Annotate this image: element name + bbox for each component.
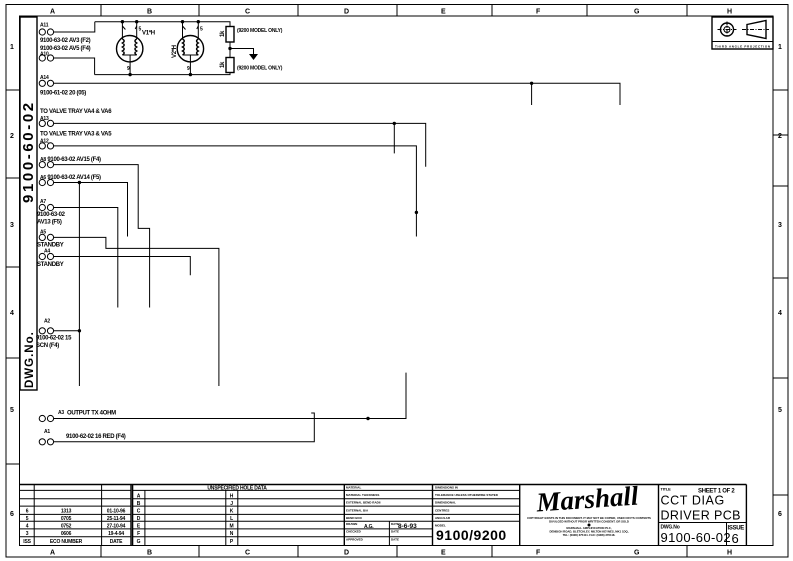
svg-text:DATE: DATE xyxy=(391,538,399,542)
svg-text:A: A xyxy=(137,493,141,499)
svg-text:C: C xyxy=(137,509,141,515)
svg-text:DATE: DATE xyxy=(110,539,123,545)
ECN issue table xyxy=(20,485,132,546)
svg-text:J: J xyxy=(230,501,233,507)
connector pad A2 xyxy=(36,319,72,350)
svg-text:3: 3 xyxy=(10,222,14,229)
svg-text:D: D xyxy=(344,550,349,557)
connector pad A5 xyxy=(37,230,64,249)
svg-text:M: M xyxy=(230,523,234,529)
svg-text:MATERIAL: MATERIAL xyxy=(346,486,361,490)
svg-text:A3: A3 xyxy=(58,410,64,416)
wire A3 output bus segment A xyxy=(54,373,406,419)
title block strip xyxy=(20,485,747,546)
dimensions block xyxy=(433,486,520,543)
svg-text:TO VALVE TRAY VA4 & VA6: TO VALVE TRAY VA4 & VA6 xyxy=(40,109,112,115)
svg-text:6: 6 xyxy=(778,511,782,518)
svg-text:V2*H: V2*H xyxy=(172,45,178,58)
svg-text:TITLE: TITLE xyxy=(661,487,672,492)
svg-text:F: F xyxy=(536,9,541,16)
svg-text:8-6-93: 8-6-93 xyxy=(398,523,417,530)
junction dot output bus at R11 xyxy=(366,417,369,420)
svg-text:B: B xyxy=(137,501,141,507)
wire A5 to LED2 xyxy=(54,237,219,386)
svg-text:D: D xyxy=(344,9,349,16)
junction dots heater bottom bus xyxy=(128,73,131,76)
svg-text:9100-62-02 15: 9100-62-02 15 xyxy=(36,336,72,342)
svg-text:6: 6 xyxy=(26,509,29,515)
row numbers left xyxy=(10,44,14,518)
svg-text:4: 4 xyxy=(778,310,782,317)
svg-text:6: 6 xyxy=(732,531,739,546)
junction dot A14 rail at R38 xyxy=(530,82,533,85)
svg-text:25-11-94: 25-11-94 xyxy=(107,516,126,522)
svg-text:H: H xyxy=(727,550,732,557)
wire A12 rail xyxy=(54,146,417,237)
svg-text:E: E xyxy=(441,9,446,16)
connector pad A14 xyxy=(39,75,86,97)
svg-text:1313: 1313 xyxy=(61,509,72,515)
svg-text:L: L xyxy=(230,516,233,522)
svg-text:EXTERNAL BEND RADII: EXTERNAL BEND RADII xyxy=(346,501,381,505)
svg-text:6: 6 xyxy=(10,511,14,518)
svg-text:A11: A11 xyxy=(40,23,49,29)
svg-text:TOLERANCE UNLESS OTHERWISE STA: TOLERANCE UNLESS OTHERWISE STATED xyxy=(435,493,499,497)
connector pad A11 xyxy=(39,23,53,36)
svg-text:CHECKED: CHECKED xyxy=(346,530,362,534)
DWG number box left xyxy=(20,17,37,390)
svg-text:1: 1 xyxy=(10,44,14,51)
row numbers right xyxy=(778,44,782,518)
wire A7 to D1 xyxy=(54,208,118,308)
wire A6 to bottom supply bus xyxy=(54,183,128,237)
svg-text:DIVULGED WITHOUT PRIOR WRITTEN: DIVULGED WITHOUT PRIOR WRITTEN CONSENT. … xyxy=(549,520,629,524)
svg-text:DATE: DATE xyxy=(391,530,399,534)
wire R30 top stub xyxy=(393,123,395,153)
third angle projection box xyxy=(712,17,773,49)
svg-text:9: 9 xyxy=(187,66,190,72)
junction dot 1k midpoint xyxy=(228,47,231,50)
svg-text:27-10-94: 27-10-94 xyxy=(107,523,126,529)
svg-text:(9200 MODEL ONLY): (9200 MODEL ONLY) xyxy=(237,66,283,72)
svg-text:A: A xyxy=(50,9,55,16)
wire A13 rail xyxy=(54,123,426,166)
wire A14 long rail to R40 xyxy=(54,83,620,105)
svg-text:(9200 MODEL ONLY): (9200 MODEL ONLY) xyxy=(237,28,283,34)
svg-text:C: C xyxy=(245,550,250,557)
svg-text:A.G.: A.G. xyxy=(364,524,374,530)
connector pad A1 xyxy=(39,429,126,445)
junction dot A2 junction xyxy=(78,329,81,332)
svg-text:19-4-94: 19-4-94 xyxy=(108,531,124,537)
connector pad A3 xyxy=(39,410,116,422)
svg-text:ISS: ISS xyxy=(23,539,31,545)
svg-text:C: C xyxy=(245,9,250,16)
svg-text:DIMENSIONAL: DIMENSIONAL xyxy=(435,501,456,505)
svg-text:1: 1 xyxy=(778,44,782,51)
Marshall logo block xyxy=(527,480,651,537)
svg-text:5: 5 xyxy=(778,407,782,414)
material block xyxy=(344,486,432,546)
wire A11 to heater bus xyxy=(54,22,95,32)
svg-text:0752: 0752 xyxy=(61,523,72,529)
svg-text:5: 5 xyxy=(200,27,203,33)
svg-text:9100-60-02: 9100-60-02 xyxy=(20,100,37,203)
valve heater V1*H xyxy=(117,22,155,75)
svg-text:F: F xyxy=(536,550,541,557)
svg-text:3: 3 xyxy=(26,531,29,537)
row tick marks left xyxy=(6,90,20,464)
svg-text:N: N xyxy=(230,531,234,537)
svg-text:9100-61-02 20 (05): 9100-61-02 20 (05) xyxy=(40,91,86,97)
resistor 1k lower (9200 only) xyxy=(220,58,283,73)
svg-text:V1*H: V1*H xyxy=(142,31,155,37)
wire A8 to D2 xyxy=(54,165,150,308)
valve heater V2*H xyxy=(172,22,204,75)
junction dot A13 rail at R30 xyxy=(393,122,396,125)
svg-text:OUTPUT TX 4OHM: OUTPUT TX 4OHM xyxy=(67,411,116,417)
svg-text:TO VALVE TRAY VA3 & VA5: TO VALVE TRAY VA3 & VA5 xyxy=(40,132,112,138)
wire A6 branch down to A2 xyxy=(78,183,80,387)
wire A2 to branch xyxy=(54,330,80,332)
svg-text:STANDBY: STANDBY xyxy=(37,243,64,249)
wire A4 to R2 xyxy=(54,257,191,276)
column letters top xyxy=(50,9,732,16)
svg-text:BEND BOX: BEND BOX xyxy=(346,516,362,520)
unspecified hole data table xyxy=(133,486,345,546)
svg-text:5: 5 xyxy=(26,516,29,522)
svg-text:CCT DIAG: CCT DIAG xyxy=(661,494,725,508)
svg-text:4: 4 xyxy=(26,523,29,529)
svg-text:1k: 1k xyxy=(220,30,226,37)
svg-text:B: B xyxy=(147,9,152,16)
connector pad A8 xyxy=(39,157,101,168)
svg-text:H: H xyxy=(230,493,234,499)
wire A10 to heater bottom bus xyxy=(54,58,95,75)
svg-text:1k: 1k xyxy=(220,61,226,68)
svg-text:STANDBY: STANDBY xyxy=(37,262,64,268)
svg-text:2: 2 xyxy=(778,133,782,140)
svg-text:9100-63-02 AV3 (F2): 9100-63-02 AV3 (F2) xyxy=(40,38,91,44)
svg-text:AV13 (F5): AV13 (F5) xyxy=(37,220,62,226)
junction dots heater top bus xyxy=(121,20,124,23)
svg-text:F: F xyxy=(137,531,140,537)
svg-text:9100/9200: 9100/9200 xyxy=(436,527,507,543)
svg-text:MATERIAL THICKNESS: MATERIAL THICKNESS xyxy=(346,493,379,497)
svg-text:D: D xyxy=(137,516,141,522)
svg-text:DIMENSIONS IN: DIMENSIONS IN xyxy=(435,486,458,490)
svg-text:A2: A2 xyxy=(44,319,50,325)
svg-text:K: K xyxy=(230,509,234,515)
svg-text:9100-60-02: 9100-60-02 xyxy=(661,530,732,545)
svg-text:H: H xyxy=(727,9,732,16)
column tick marks bottom xyxy=(101,546,687,558)
svg-text:THIRD ANGLE PROJECTION: THIRD ANGLE PROJECTION xyxy=(715,45,770,49)
svg-text:A1: A1 xyxy=(44,429,50,435)
svg-text:DRAWN: DRAWN xyxy=(346,522,357,526)
junction dot A6 branch xyxy=(78,181,81,184)
svg-text:G: G xyxy=(634,550,640,557)
svg-text:0606: 0606 xyxy=(61,531,72,537)
column letters bottom xyxy=(50,550,732,557)
wire to ground xyxy=(230,49,254,55)
svg-text:01-10-96: 01-10-96 xyxy=(107,509,126,515)
wire R38 top stub xyxy=(531,83,533,105)
svg-text:2: 2 xyxy=(10,133,14,140)
connector pad A4 xyxy=(37,249,64,269)
svg-text:ECO NUMBER: ECO NUMBER xyxy=(50,539,83,545)
svg-text:ANGULAR: ANGULAR xyxy=(435,516,451,520)
junction dot A12 line at C28 tap xyxy=(415,211,418,214)
svg-text:SCN (F4): SCN (F4) xyxy=(36,343,59,349)
svg-text:A: A xyxy=(50,550,55,557)
svg-text:9100-63-02: 9100-63-02 xyxy=(37,212,66,218)
svg-text:CENTRES: CENTRES xyxy=(435,509,449,513)
svg-text:TEL: (0908) 375411. FAX: (0908: TEL: (0908) 375411. FAX: (0908) 376118. xyxy=(563,533,616,537)
svg-text:APPROVED: APPROVED xyxy=(346,538,364,542)
connector pad A12 xyxy=(39,132,112,149)
svg-text:EXTERNAL B/A: EXTERNAL B/A xyxy=(346,509,369,513)
resistor 1k upper (9200 only) xyxy=(220,27,283,43)
svg-text:B: B xyxy=(147,550,152,557)
svg-text:G: G xyxy=(634,9,640,16)
svg-text:9: 9 xyxy=(127,66,130,72)
ground xyxy=(249,54,258,60)
svg-text:G: G xyxy=(137,539,141,545)
title text block xyxy=(659,487,747,547)
wire between 1k resistors xyxy=(229,42,231,58)
svg-text:9100-62-02 16 RED (F4): 9100-62-02 16 RED (F4) xyxy=(66,434,126,440)
connector pad A10 xyxy=(39,52,53,62)
connector pad A7 xyxy=(37,199,66,226)
column tick marks top xyxy=(101,5,687,17)
connector pad A13 xyxy=(39,109,112,127)
wire heater bottom bus xyxy=(95,73,230,75)
svg-text:DWG.No.: DWG.No. xyxy=(24,331,36,388)
wire A1 to switch plug xyxy=(54,413,315,442)
row tick marks right xyxy=(773,90,788,495)
svg-text:E: E xyxy=(441,550,446,557)
svg-text:4: 4 xyxy=(10,310,14,317)
svg-text:DRIVER PCB: DRIVER PCB xyxy=(661,509,741,523)
svg-text:0705: 0705 xyxy=(61,516,72,522)
connector pad A6 xyxy=(39,175,101,186)
wire heater top bus xyxy=(95,22,230,27)
svg-text:3: 3 xyxy=(778,222,782,229)
svg-text:5: 5 xyxy=(10,407,14,414)
